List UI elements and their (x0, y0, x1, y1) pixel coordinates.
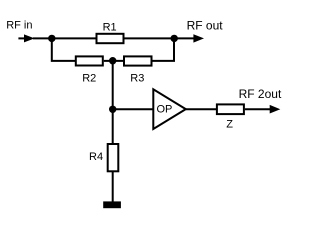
wire: R3 up to output junction (153, 38, 175, 61)
resistor R2 (76, 56, 103, 65)
wire: tap down to R4 (112, 109, 114, 144)
svg-text:OP: OP (157, 104, 173, 116)
wire: R4 to ground (112, 171, 114, 202)
svg-text:R2: R2 (82, 73, 96, 85)
RF out arrow (174, 34, 204, 42)
wire: input to R1 (33, 37, 96, 39)
RF 2out arrow (245, 105, 280, 114)
resistor R4 (108, 144, 119, 171)
svg-text:R3: R3 (130, 73, 144, 85)
svg-text:R1: R1 (103, 21, 117, 33)
resistor R1 (97, 34, 124, 43)
wire: R1 to output junction (125, 37, 175, 39)
svg-text:R4: R4 (89, 151, 103, 163)
node: output junction (171, 35, 178, 42)
RF in arrow (18, 34, 34, 42)
wire: center node down to op-amp tap (112, 61, 114, 110)
svg-text:RF out: RF out (187, 18, 224, 32)
svg-text:RF 2out: RF 2out (239, 87, 282, 101)
resistor R3 (124, 56, 152, 65)
wire: R2 to R3 (104, 60, 124, 62)
impedance Z (217, 104, 244, 114)
node: input junction (48, 35, 55, 42)
svg-text:RF in: RF in (6, 19, 32, 31)
node: R2-R3 junction (109, 57, 116, 64)
wire: tap to op-amp input (113, 108, 154, 110)
wire: input junction down to R2 (52, 38, 76, 61)
op-amp U1 (OP) (153, 89, 186, 129)
node: op-amp input tap (109, 106, 116, 113)
wire: op-amp output to Z (186, 108, 217, 110)
ground (103, 201, 121, 208)
svg-text:Z: Z (226, 118, 233, 130)
